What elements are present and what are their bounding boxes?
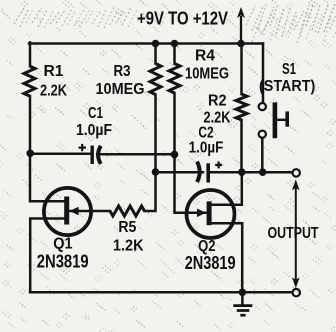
capacitor C1 plate curved <box>98 146 101 164</box>
wire Q2 source down to ground rail <box>211 223 242 292</box>
wire Q2 drain up to R2 node <box>211 174 242 205</box>
wire S1 top lead <box>262 44 265 103</box>
svg-text:10MEG: 10MEG <box>185 66 229 83</box>
node: R3 top junction <box>152 40 160 48</box>
transistor Q2 body <box>187 190 235 238</box>
capacitor C2 plate curved <box>197 162 200 182</box>
wire S1 bottom lead <box>261 138 264 172</box>
svg-text:1.0µF: 1.0µF <box>76 122 112 139</box>
wire left rail middle + Q1 drain lead <box>30 96 65 201</box>
svg-text:C1: C1 <box>88 105 103 122</box>
node: R3 / C2 junction <box>152 168 160 176</box>
power arrow up <box>240 16 242 43</box>
wire R4 top lead <box>173 42 176 63</box>
resistor R3 <box>150 64 161 95</box>
wire R3 top lead <box>154 42 157 63</box>
capacitor C2 plus <box>215 162 222 169</box>
svg-text:2N3819: 2N3819 <box>37 251 89 271</box>
transistor Q1 gate arrow <box>69 207 78 215</box>
svg-text:1.0µF: 1.0µF <box>189 140 224 157</box>
svg-text:S1: S1 <box>282 61 296 78</box>
wire Q1 source to left rail and bottom rail <box>30 219 65 293</box>
node: C1 / R4-line junction <box>171 151 179 159</box>
node: left rail / C1 junction <box>26 150 34 158</box>
wire R2 bottom lead <box>240 120 243 172</box>
svg-text:R2: R2 <box>208 93 227 110</box>
wire bottom rail <box>30 291 292 294</box>
switch S1 stem <box>277 119 286 121</box>
svg-text:R3: R3 <box>114 63 131 80</box>
wire R4 bottom lead down to Q2 gate <box>175 93 206 213</box>
switch S1 button cap <box>285 111 289 126</box>
transistor Q1 channel bar <box>64 197 69 225</box>
ground symbol <box>233 306 252 316</box>
svg-text:Q1: Q1 <box>53 235 72 252</box>
output bottom terminal <box>293 289 300 296</box>
resistor R1 <box>24 66 35 96</box>
wire R2 top lead <box>240 42 243 94</box>
wire top rail <box>29 42 263 45</box>
transistor Q2 channel bar <box>207 201 212 225</box>
wire ground stem <box>241 292 244 305</box>
svg-text:+9V TO +12V: +9V TO +12V <box>137 9 228 29</box>
node: R2 / supply junction <box>237 40 245 48</box>
resistor R2 <box>236 94 247 120</box>
resistor R5 <box>110 206 145 216</box>
capacitor C2 plate straight <box>206 163 210 182</box>
node: S1 bottom junction <box>259 168 267 176</box>
transistor Q2 gate arrow <box>197 209 206 217</box>
svg-text:R5: R5 <box>118 219 136 236</box>
resistor R4 <box>169 64 180 94</box>
svg-text:R4: R4 <box>195 48 215 65</box>
switch S1 top terminal <box>259 103 266 110</box>
transistor Q1 body <box>44 188 91 235</box>
svg-text:1.2K: 1.2K <box>113 238 144 255</box>
svg-text:10MEG: 10MEG <box>96 81 145 98</box>
svg-text:OUTPUT: OUTPUT <box>268 225 319 242</box>
node: R4 top junction <box>171 40 179 48</box>
svg-text:(START): (START) <box>259 78 315 95</box>
wire R3 bottom lead down to R5 <box>145 95 156 212</box>
wire Q1 gate to R5 <box>69 210 110 213</box>
wire C1 node <box>30 153 90 156</box>
capacitor C1 plate straight <box>91 146 94 164</box>
output arrow up <box>295 186 297 280</box>
capacitor C1 plus <box>79 144 87 151</box>
wire C1 to R4 line <box>97 153 174 156</box>
svg-text:R1: R1 <box>44 63 64 80</box>
node: R2 / Q2 drain junction <box>238 168 246 176</box>
node: ground junction <box>239 289 247 297</box>
svg-text:2N3819: 2N3819 <box>185 253 236 273</box>
wire C2 node left <box>156 171 204 174</box>
switch S1 bottom terminal <box>259 131 266 138</box>
wire C2 node right to output <box>208 171 292 174</box>
wire left rail upper <box>29 42 32 66</box>
output arrow down <box>292 277 300 288</box>
output top terminal <box>293 169 300 176</box>
svg-text:2.2K: 2.2K <box>40 83 67 100</box>
switch S1 contact bar <box>273 102 278 138</box>
